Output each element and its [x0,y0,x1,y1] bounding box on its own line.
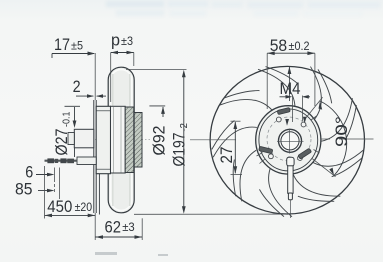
hatched rear hub band B [134,113,142,168]
faint bottom marks [95,252,168,256]
bore circles [279,129,302,152]
hub slots [259,108,312,160]
hub ring tick marks [257,116,320,164]
rotor bell (white cylinder) [111,106,126,173]
hub outer ring [256,106,321,174]
wire terminal blocks [47,158,54,163]
bracket line below motor [98,174,100,215]
shaft (hanging down) [287,157,294,200]
ghost print-through text at top [106,1,380,16]
cable grommet [77,157,96,165]
motor front housing [96,106,110,173]
dim Ø197 vertical line [183,73,185,211]
svg-text:85: 85 [15,180,33,199]
svg-text:±3: ±3 [122,220,135,234]
Ø197 extension lines [126,68,187,70]
svg-text:27: 27 [217,147,236,164]
svg-text:-2: -2 [179,123,190,132]
lead wires [45,160,78,162]
label Ø197-2 (rotated) [170,123,191,167]
blades [193,44,381,231]
svg-text:±5: ±5 [71,39,83,53]
svg-text:±0.2: ±0.2 [289,41,310,53]
svg-text:M4: M4 [280,79,301,98]
svg-text:450: 450 [47,197,72,216]
label Ø27-0.1 (rotated) [52,111,73,155]
centerline (fan axis, left view) [86,139,150,141]
svg-text:Ø27: Ø27 [52,129,71,156]
svg-text:Ø197: Ø197 [170,133,189,167]
vertical centerline with top arrow [288,67,290,101]
shaft boss [74,129,94,148]
svg-text:17: 17 [54,35,70,54]
shaft stub [68,133,74,145]
plate extension line (top & bottom) [94,53,96,100]
svg-text:±20: ±20 [75,200,93,214]
svg-text:62: 62 [105,217,122,236]
hatched blade section band A [125,107,134,173]
mounting plate [93,100,95,213]
svg-text:±3: ±3 [121,34,133,48]
impeller capsule (side silhouette) [108,67,134,213]
svg-text:90°: 90° [332,116,351,147]
svg-text:2: 2 [73,77,81,96]
horizontal centerline [190,139,236,141]
bolt circle (dashed) [267,117,311,161]
svg-text:-0.1: -0.1 [62,111,73,127]
outer rim circle [210,66,364,214]
capsule inner highlight [111,70,132,211]
bolt holes M4 [301,122,306,127]
svg-text:p: p [111,31,120,50]
svg-text:Ø92: Ø92 [150,126,169,156]
